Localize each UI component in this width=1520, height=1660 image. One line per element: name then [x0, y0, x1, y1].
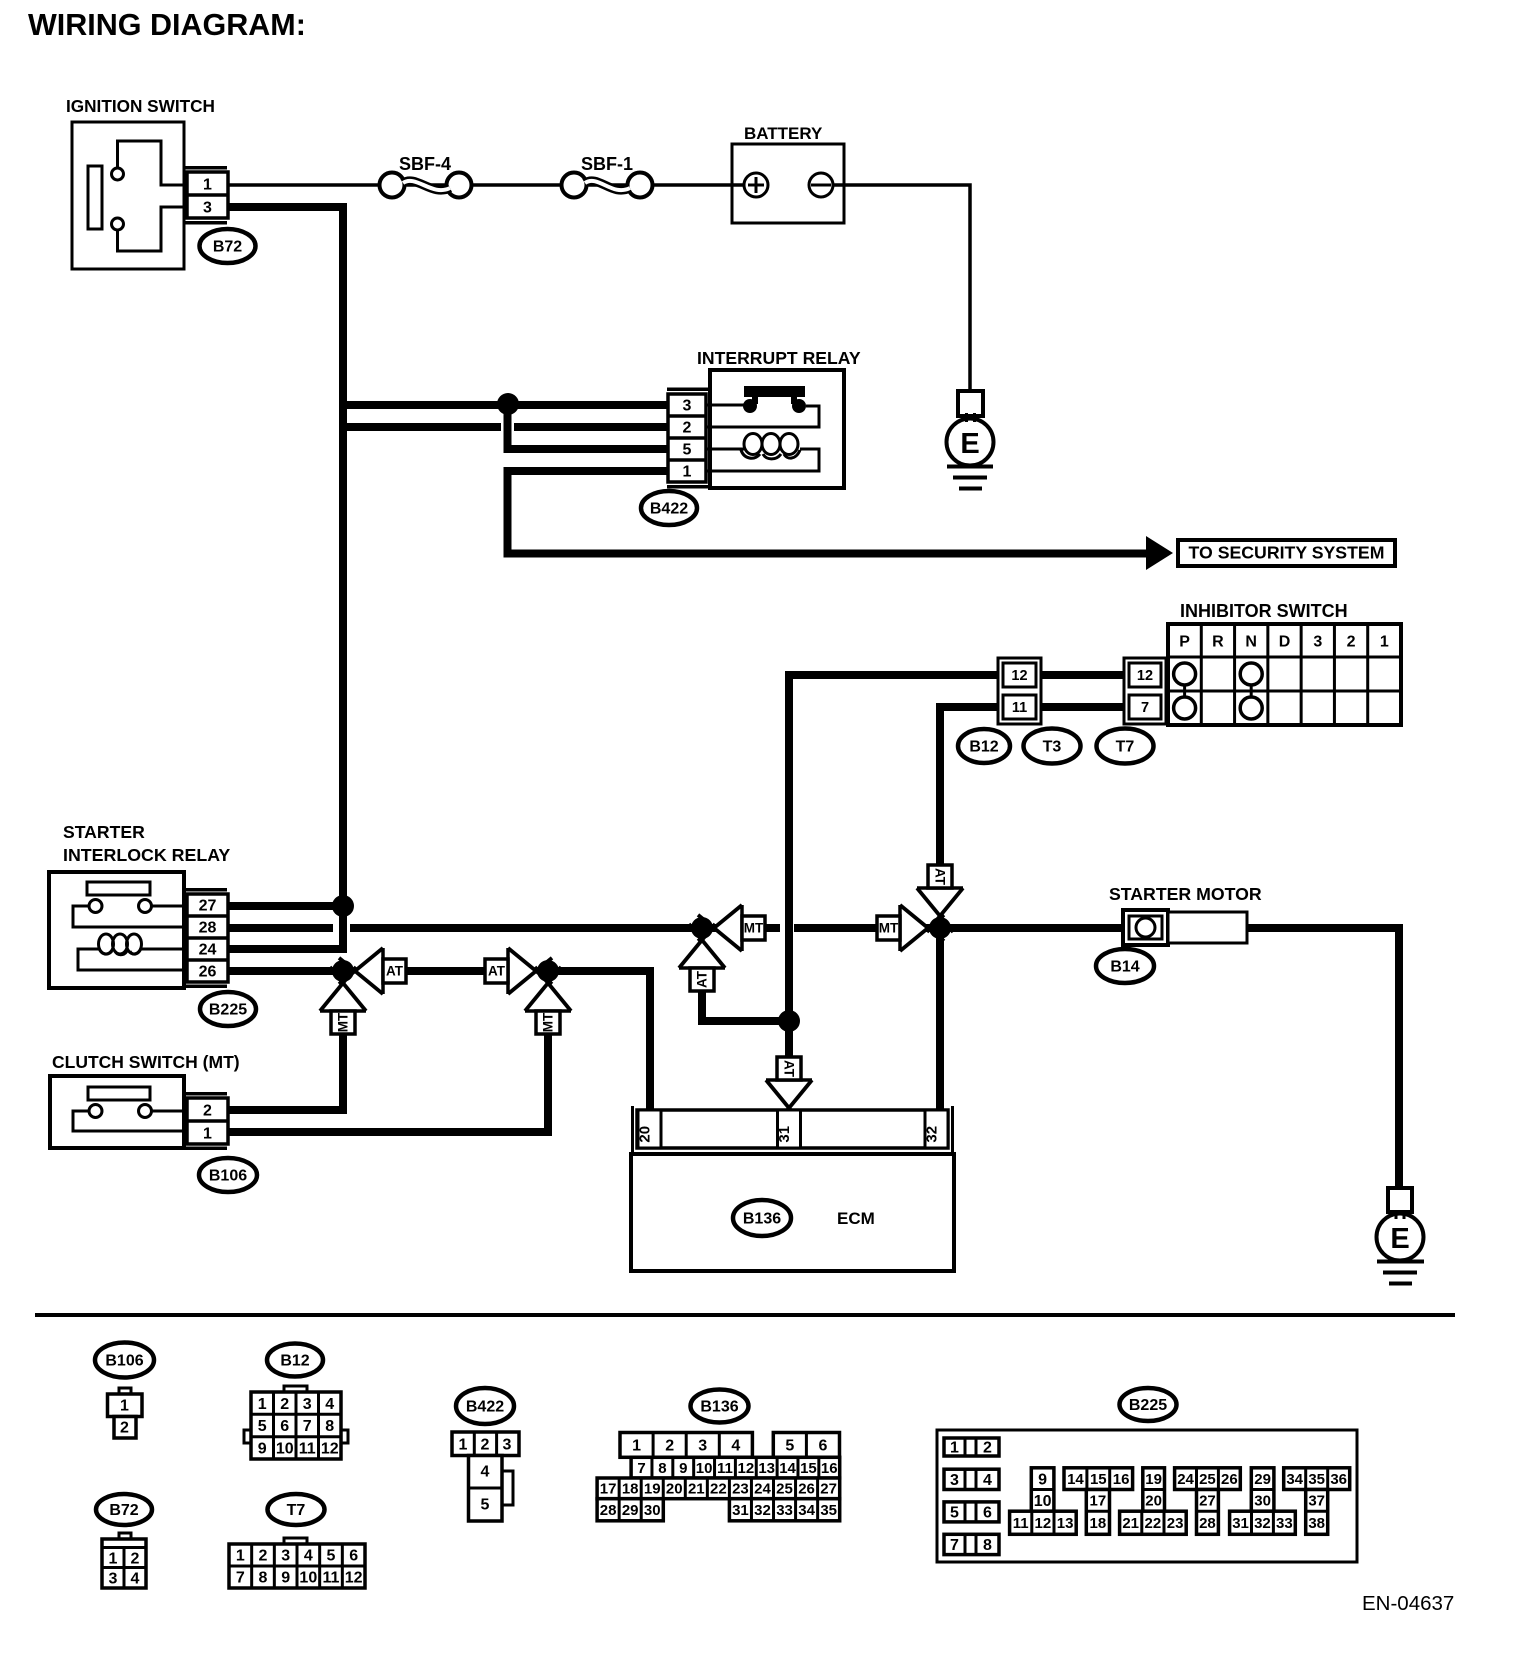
- wire branch to interrupt relay pin 3: [339, 401, 668, 409]
- svg-text:AT: AT: [488, 964, 506, 979]
- inhibitor switch table: [1168, 624, 1401, 725]
- svg-text:25: 25: [1199, 1471, 1216, 1488]
- connector label B12: [958, 729, 1010, 763]
- svg-text:38: 38: [1308, 1515, 1325, 1532]
- svg-text:T7: T7: [1116, 739, 1135, 756]
- svg-text:11: 11: [717, 1460, 733, 1477]
- junction ECM pin 31 branch: [778, 1010, 800, 1032]
- svg-text:MT: MT: [879, 921, 899, 936]
- svg-text:24: 24: [1177, 1471, 1194, 1488]
- svg-text:1: 1: [459, 1437, 468, 1454]
- connector B225 pinout: [937, 1430, 1357, 1562]
- svg-text:9: 9: [281, 1570, 290, 1587]
- svg-text:16: 16: [821, 1460, 838, 1477]
- svg-text:37: 37: [1308, 1493, 1325, 1510]
- wire ECM junction to AT arrow pin 31: [785, 1021, 793, 1058]
- wire junction drop to interrupt relay pin 5: [508, 400, 669, 449]
- svg-text:21: 21: [1122, 1515, 1139, 1532]
- wire starter motor to ground E: [1247, 928, 1399, 1188]
- svg-text:2: 2: [131, 1551, 140, 1568]
- svg-text:STARTER: STARTER: [63, 822, 145, 842]
- inhibitor switch contacts N column: [1240, 663, 1262, 685]
- junction starter line AT: [929, 917, 951, 939]
- svg-text:11: 11: [299, 1440, 316, 1457]
- starter motor body box: [1168, 912, 1247, 943]
- svg-text:3: 3: [1313, 634, 1322, 651]
- svg-text:MT: MT: [336, 1012, 351, 1032]
- svg-text:17: 17: [1090, 1493, 1107, 1510]
- wire starter interlock pin 24: [228, 945, 343, 953]
- svg-text:14: 14: [779, 1460, 796, 1477]
- svg-text:19: 19: [1145, 1471, 1162, 1488]
- svg-text:8: 8: [983, 1537, 992, 1554]
- svg-text:20: 20: [666, 1481, 683, 1498]
- svg-text:20: 20: [1145, 1493, 1162, 1510]
- svg-text:12: 12: [737, 1460, 754, 1477]
- svg-text:D: D: [1279, 634, 1291, 651]
- interrupt relay coil: [706, 448, 744, 451]
- wire starter interlock pin 27: [228, 902, 343, 910]
- connector label B225 pinout: [1120, 1388, 1177, 1421]
- svg-text:B12: B12: [280, 1353, 309, 1370]
- svg-text:4: 4: [731, 1438, 740, 1455]
- svg-text:11: 11: [1013, 1515, 1029, 1532]
- svg-text:32: 32: [754, 1502, 771, 1519]
- wire branch to interrupt relay pin 2 left segment: [339, 423, 501, 431]
- svg-text:22: 22: [710, 1481, 727, 1498]
- svg-text:1: 1: [109, 1551, 118, 1568]
- connector label B72: [200, 229, 256, 263]
- ignition switch contact upper: [112, 168, 124, 180]
- battery box: [732, 144, 844, 223]
- connector label B422: [641, 491, 697, 525]
- svg-text:29: 29: [1254, 1471, 1271, 1488]
- connector B136 pinout: [620, 1433, 752, 1458]
- connector B422 pins 3 2 5 1: [668, 394, 706, 482]
- connector B106 housing bars: [185, 1092, 227, 1096]
- svg-text:CLUTCH SWITCH (MT): CLUTCH SWITCH (MT): [52, 1052, 240, 1072]
- svg-text:1: 1: [236, 1548, 245, 1565]
- ignition switch box: [72, 122, 184, 269]
- svg-text:2: 2: [983, 1440, 992, 1457]
- svg-text:23: 23: [1167, 1515, 1184, 1532]
- svg-text:EN-04637: EN-04637: [1362, 1592, 1454, 1615]
- svg-text:5: 5: [950, 1505, 959, 1522]
- ignition switch contact lower: [112, 218, 124, 230]
- connector B72 pinout: [119, 1533, 131, 1539]
- svg-text:TO SECURITY SYSTEM: TO SECURITY SYSTEM: [1189, 543, 1385, 563]
- connector B106 pinout: [119, 1388, 131, 1394]
- junction starter interlock pin 27: [332, 895, 354, 917]
- ignition switch key bar: [88, 166, 102, 229]
- svg-text:13: 13: [1057, 1515, 1074, 1532]
- connector label B136: [733, 1200, 791, 1236]
- svg-text:11: 11: [1012, 700, 1027, 716]
- connector label B422 pinout: [456, 1388, 514, 1424]
- svg-text:B136: B136: [700, 1399, 738, 1416]
- ECM pin 32: [925, 1110, 948, 1148]
- fuse SBF-1: [562, 173, 587, 198]
- svg-text:3: 3: [683, 398, 692, 415]
- svg-text:2: 2: [280, 1396, 289, 1413]
- battery plus terminal: [744, 173, 768, 197]
- interrupt relay contact wiring: [706, 404, 744, 407]
- svg-text:12: 12: [1035, 1515, 1052, 1532]
- wire junction to ECM pin 32: [936, 928, 944, 1110]
- ignition switch internal wiring upper: [118, 141, 188, 185]
- svg-text:BATTERY: BATTERY: [744, 124, 823, 143]
- svg-text:INTERRUPT RELAY: INTERRUPT RELAY: [697, 348, 861, 368]
- ECM pin 31: [778, 1110, 801, 1148]
- wire ignition pin 3 feed vertical: [228, 207, 343, 953]
- to security system box: [1178, 540, 1395, 566]
- wire clutch pin 1 to MT arrow: [228, 1034, 548, 1132]
- fuse SBF-4: [380, 173, 405, 198]
- svg-text:9: 9: [258, 1440, 267, 1457]
- starter interlock relay box: [49, 872, 184, 988]
- wire main starter line right of crossing: [794, 924, 1123, 932]
- connector label B106: [199, 1158, 257, 1192]
- arrow AT into ECM pin 31: [766, 1080, 812, 1108]
- svg-text:T3: T3: [1043, 739, 1062, 756]
- starter interlock relay contacts: [89, 900, 102, 913]
- svg-text:N: N: [1245, 634, 1257, 651]
- svg-text:3: 3: [303, 1396, 312, 1413]
- connector label T7 pinout: [268, 1494, 325, 1525]
- ignition switch internal wiring lower: [118, 207, 188, 251]
- arrow MT from clutch pin 2: [320, 983, 366, 1011]
- svg-text:T7: T7: [287, 1502, 306, 1519]
- svg-text:MT: MT: [541, 1012, 556, 1032]
- svg-text:20: 20: [637, 1126, 654, 1143]
- svg-text:10: 10: [1034, 1493, 1052, 1510]
- svg-text:IGNITION SWITCH: IGNITION SWITCH: [66, 96, 215, 116]
- junction MT AT to ECM pin 20: [537, 960, 559, 982]
- svg-text:29: 29: [622, 1502, 639, 1519]
- wire starter interlock pin 26 to AT junction: [228, 967, 343, 975]
- interrupt relay box: [710, 370, 844, 488]
- svg-text:3: 3: [698, 1438, 707, 1455]
- svg-text:33: 33: [776, 1502, 793, 1519]
- svg-text:6: 6: [983, 1505, 992, 1522]
- junction main line MT AT: [691, 917, 713, 939]
- connector B72 pins 1 and 3: [187, 172, 228, 218]
- svg-text:INHIBITOR SWITCH: INHIBITOR SWITCH: [1180, 601, 1348, 621]
- svg-text:12: 12: [345, 1570, 363, 1587]
- svg-text:27: 27: [199, 898, 217, 915]
- svg-text:B422: B422: [466, 1399, 504, 1416]
- ECM pin 20: [638, 1110, 661, 1148]
- svg-text:1: 1: [950, 1440, 959, 1457]
- svg-text:8: 8: [658, 1460, 666, 1477]
- arrow MT into starter junction: [900, 905, 928, 951]
- svg-text:31: 31: [732, 1502, 749, 1519]
- svg-text:25: 25: [776, 1481, 793, 1498]
- connector label T3: [1024, 729, 1081, 764]
- connector label B106 pinout: [95, 1343, 154, 1378]
- svg-text:1: 1: [258, 1396, 267, 1413]
- svg-text:8: 8: [325, 1418, 334, 1435]
- svg-text:32: 32: [1254, 1515, 1271, 1532]
- clutch switch contact bar: [88, 1087, 150, 1100]
- svg-text:12: 12: [1011, 668, 1027, 684]
- svg-text:22: 22: [1145, 1515, 1162, 1532]
- svg-text:5: 5: [258, 1418, 267, 1435]
- connector label B225: [200, 992, 256, 1026]
- svg-text:35: 35: [820, 1502, 837, 1519]
- ground E battery side: [958, 391, 983, 416]
- svg-text:5: 5: [327, 1548, 336, 1565]
- svg-text:33: 33: [1276, 1515, 1293, 1532]
- svg-text:B225: B225: [1129, 1397, 1167, 1414]
- svg-text:E: E: [1390, 1223, 1409, 1255]
- battery minus terminal: [809, 173, 833, 197]
- svg-text:10: 10: [276, 1440, 294, 1457]
- svg-text:2: 2: [683, 420, 692, 437]
- svg-text:B14: B14: [1110, 959, 1139, 976]
- wire inhibitor connector link pin 11 to 7: [1041, 703, 1124, 711]
- svg-text:19: 19: [644, 1481, 661, 1498]
- svg-text:5: 5: [683, 442, 692, 459]
- connector B422 housing bars: [667, 388, 710, 392]
- ECM connector strip: [631, 1106, 634, 1152]
- svg-text:34: 34: [798, 1502, 815, 1519]
- svg-text:24: 24: [754, 1481, 771, 1498]
- ground E starter side: [1388, 1188, 1412, 1212]
- svg-text:30: 30: [1254, 1493, 1271, 1510]
- connector B225 housing bars: [185, 888, 227, 892]
- svg-text:INTERLOCK RELAY: INTERLOCK RELAY: [63, 845, 230, 865]
- svg-text:26: 26: [1221, 1471, 1238, 1488]
- connector T7 pinout: [284, 1538, 307, 1544]
- junction interrupt relay feed: [497, 393, 519, 415]
- connector B106 pins 2 1: [187, 1098, 228, 1144]
- arrow AT toward ECM junction: [508, 948, 536, 994]
- svg-text:31: 31: [1232, 1515, 1249, 1532]
- connector B12 T3 pins 12 11: [998, 658, 1041, 724]
- svg-text:28: 28: [1199, 1515, 1216, 1532]
- ECM box: [631, 1154, 954, 1271]
- svg-text:B106: B106: [105, 1353, 143, 1370]
- svg-text:30: 30: [644, 1502, 661, 1519]
- starter motor solenoid box: [1123, 910, 1168, 945]
- svg-text:AT: AT: [695, 970, 710, 988]
- svg-text:WIRING DIAGRAM:: WIRING DIAGRAM:: [28, 8, 306, 42]
- svg-text:4: 4: [983, 1472, 992, 1489]
- svg-text:1: 1: [683, 464, 692, 481]
- svg-text:12: 12: [321, 1440, 339, 1457]
- connector B72 housing bars: [185, 166, 227, 170]
- svg-text:AT: AT: [386, 964, 404, 979]
- svg-text:28: 28: [199, 920, 217, 937]
- svg-text:5: 5: [785, 1438, 794, 1455]
- svg-text:3: 3: [503, 1437, 512, 1454]
- wire clutch pin 2 to MT arrow: [228, 1034, 343, 1110]
- svg-text:7: 7: [236, 1570, 245, 1587]
- wire inhibitor pin 12 to ECM pin 31 vertical: [789, 675, 998, 1021]
- wire branch to interrupt relay pin 2 right segment: [514, 423, 668, 431]
- arrow MT into main line junction: [714, 905, 742, 951]
- svg-text:27: 27: [1199, 1493, 1216, 1510]
- connector label B72 pinout: [96, 1494, 152, 1525]
- svg-text:1: 1: [203, 1126, 212, 1143]
- svg-text:11: 11: [323, 1570, 340, 1587]
- svg-text:6: 6: [819, 1438, 828, 1455]
- starter interlock relay coil: [99, 934, 114, 954]
- svg-text:1: 1: [203, 177, 212, 194]
- svg-text:B72: B72: [109, 1502, 138, 1519]
- svg-text:2: 2: [1347, 634, 1356, 651]
- svg-text:13: 13: [758, 1460, 775, 1477]
- svg-text:34: 34: [1286, 1471, 1303, 1488]
- svg-text:3: 3: [203, 200, 212, 217]
- svg-text:7: 7: [637, 1460, 645, 1477]
- svg-text:B12: B12: [969, 739, 998, 756]
- svg-text:2: 2: [259, 1548, 268, 1565]
- wire main starter line left segment: [228, 924, 333, 932]
- svg-text:B225: B225: [209, 1002, 247, 1019]
- svg-text:AT: AT: [932, 868, 947, 886]
- svg-text:MT: MT: [744, 921, 764, 936]
- arrow MT from clutch pin 1: [525, 983, 571, 1011]
- svg-text:3: 3: [109, 1571, 118, 1588]
- wire interrupt relay pin 1 to security system: [508, 471, 1147, 554]
- svg-text:31: 31: [776, 1126, 793, 1143]
- connector label B136 pinout: [691, 1390, 749, 1423]
- svg-text:32: 32: [924, 1126, 941, 1143]
- connector B422 pinout: [452, 1432, 519, 1456]
- svg-text:24: 24: [199, 942, 217, 959]
- interrupt relay contact bar: [744, 386, 805, 404]
- wire junction to ECM pin 20: [548, 971, 650, 1110]
- svg-text:2: 2: [665, 1438, 674, 1455]
- svg-text:2: 2: [203, 1103, 212, 1120]
- arrow AT into interlock junction: [355, 948, 383, 994]
- svg-text:B136: B136: [743, 1211, 781, 1228]
- svg-text:10: 10: [696, 1460, 713, 1477]
- wire ignition pin 1 to battery plus: [228, 183, 756, 187]
- svg-text:6: 6: [280, 1418, 289, 1435]
- connector label B12 pinout: [267, 1344, 323, 1377]
- svg-text:14: 14: [1067, 1471, 1084, 1488]
- starter interlock relay contact wiring: [152, 905, 188, 908]
- svg-text:ECM: ECM: [837, 1209, 875, 1228]
- svg-text:7: 7: [303, 1418, 312, 1435]
- junction MT AT clutch pin 2: [332, 960, 354, 982]
- wire AT drop to ECM junction: [702, 991, 789, 1021]
- svg-text:10: 10: [299, 1570, 317, 1587]
- svg-text:18: 18: [622, 1481, 639, 1498]
- svg-text:4: 4: [325, 1396, 334, 1413]
- svg-text:35: 35: [1308, 1471, 1325, 1488]
- svg-text:9: 9: [679, 1460, 687, 1477]
- svg-text:B72: B72: [213, 239, 242, 256]
- svg-text:26: 26: [798, 1481, 815, 1498]
- arrow AT from inhibitor switch: [917, 888, 963, 916]
- svg-text:18: 18: [1090, 1515, 1107, 1532]
- connector label B14: [1096, 949, 1154, 983]
- svg-text:SBF-4: SBF-4: [399, 154, 451, 174]
- svg-text:2: 2: [481, 1437, 490, 1454]
- svg-text:STARTER MOTOR: STARTER MOTOR: [1109, 884, 1262, 904]
- svg-text:26: 26: [199, 964, 217, 981]
- wire battery minus to ground E: [833, 185, 970, 393]
- svg-text:12: 12: [1137, 668, 1153, 684]
- svg-text:B106: B106: [209, 1168, 247, 1185]
- svg-text:4: 4: [304, 1548, 313, 1565]
- wire inhibitor connector link pin 12: [1041, 671, 1124, 679]
- svg-text:9: 9: [1038, 1471, 1047, 1488]
- svg-text:36: 36: [1330, 1471, 1347, 1488]
- svg-text:17: 17: [600, 1481, 617, 1498]
- svg-text:R: R: [1212, 634, 1224, 651]
- svg-text:3: 3: [281, 1548, 290, 1565]
- clutch switch box: [50, 1076, 184, 1148]
- connector B12 pinout: [284, 1386, 307, 1392]
- svg-text:15: 15: [1090, 1471, 1107, 1488]
- clutch switch contacts: [89, 1105, 102, 1118]
- svg-text:28: 28: [600, 1502, 617, 1519]
- wire inhibitor pin 11 drop to AT arrow: [940, 707, 998, 865]
- starter interlock relay contact bar: [87, 882, 150, 895]
- wire AT link between arrows: [406, 967, 485, 975]
- svg-text:4: 4: [481, 1464, 490, 1481]
- clutch switch contact wiring: [152, 1110, 188, 1113]
- svg-text:7: 7: [950, 1537, 959, 1554]
- svg-text:AT: AT: [781, 1060, 796, 1078]
- svg-text:SBF-1: SBF-1: [581, 154, 633, 174]
- interrupt relay contact dots: [743, 399, 757, 413]
- connector B225 pins 27 28 24 26: [187, 894, 228, 982]
- svg-text:5: 5: [481, 1497, 490, 1514]
- svg-text:23: 23: [732, 1481, 749, 1498]
- svg-text:7: 7: [1141, 700, 1149, 716]
- svg-text:1: 1: [1380, 634, 1389, 651]
- svg-text:1: 1: [632, 1438, 641, 1455]
- svg-text:3: 3: [950, 1472, 959, 1489]
- connector T7 pins 12 7: [1124, 658, 1166, 724]
- svg-text:16: 16: [1113, 1471, 1130, 1488]
- inhibitor switch contacts P column: [1174, 663, 1196, 685]
- svg-text:1: 1: [120, 1398, 129, 1415]
- svg-text:E: E: [960, 428, 979, 460]
- svg-text:6: 6: [349, 1548, 358, 1565]
- separator line: [35, 1313, 1455, 1317]
- arrowhead to security system: [1146, 536, 1173, 570]
- svg-text:2: 2: [120, 1420, 129, 1437]
- svg-text:8: 8: [259, 1570, 268, 1587]
- connector label T7: [1097, 729, 1154, 764]
- svg-text:21: 21: [688, 1481, 705, 1498]
- arrow AT from ECM branch: [679, 940, 725, 968]
- wire main starter line left of crossing: [350, 924, 780, 932]
- svg-text:27: 27: [820, 1481, 837, 1498]
- svg-text:P: P: [1179, 634, 1190, 651]
- svg-text:4: 4: [131, 1571, 140, 1588]
- svg-text:B422: B422: [650, 501, 688, 518]
- svg-text:15: 15: [800, 1460, 817, 1477]
